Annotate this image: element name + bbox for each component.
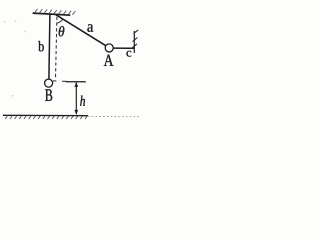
label A — [104, 55, 114, 66]
ball B — [45, 79, 53, 87]
label b — [38, 41, 44, 51]
label c — [127, 51, 132, 57]
string b (vertical cord from ceiling to ball B) — [49, 14, 50, 79]
h arrowhead down — [74, 110, 78, 115]
angle arc for theta — [57, 19, 63, 23]
faint scan speckles — [4, 20, 26, 96]
ball A — [105, 44, 113, 52]
ceiling line — [33, 13, 71, 15]
dashed vertical reference line under attach point of string a — [56, 17, 57, 79]
label B — [45, 89, 52, 101]
h arrow shaft — [75, 82, 77, 114]
ground line (faded dotted right part) — [88, 115, 141, 117]
h arrowhead up — [74, 82, 78, 87]
ceiling hatch ticks — [35, 9, 76, 15]
wall (right anchor) — [133, 31, 135, 53]
solid reference tick above h arrow — [66, 81, 86, 83]
label a — [87, 24, 93, 32]
label h — [80, 96, 85, 106]
label theta — [59, 26, 65, 36]
ground line (solid left part) — [3, 114, 88, 116]
dashed horizontal reference at ball B level — [53, 80, 66, 82]
rod c (horizontal link from ball A to wall) — [113, 47, 134, 49]
wall hatch ticks — [132, 30, 139, 49]
string a (inclined cord from ceiling to ball A) — [56, 15, 106, 46]
ground hatch ticks — [5, 116, 87, 119]
